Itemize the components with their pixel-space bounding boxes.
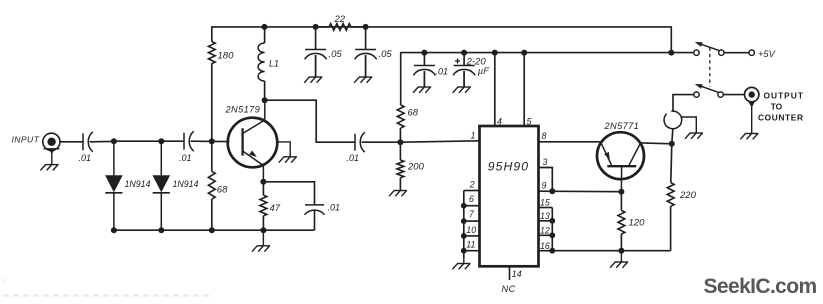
- capacitor C .05 (second bypass): [365, 27, 367, 50]
- node: emitter junction: [260, 179, 266, 185]
- wire: pin 5 supply drop: [521, 50, 527, 56]
- node: diode 1 top: [111, 138, 117, 144]
- wire: between diode nodes: [114, 140, 161, 142]
- svg-text:5: 5: [527, 116, 532, 126]
- node: base/120 junction: [618, 189, 624, 195]
- svg-text:TO: TO: [771, 101, 783, 111]
- wire: top-right corner drop: [670, 26, 672, 52]
- svg-text:.01: .01: [328, 203, 341, 213]
- ground (2-20 uF): [453, 71, 471, 93]
- svg-text:14: 14: [512, 269, 522, 279]
- resistor R 220: [671, 144, 672, 183]
- svg-text:+5V: +5V: [758, 49, 776, 59]
- switch S1a (power) contacts: [671, 52, 694, 54]
- svg-text:13: 13: [540, 211, 550, 221]
- connector J INPUT (BNC): [43, 133, 60, 150]
- node: L1 top junction: [261, 24, 267, 30]
- wire: to second coupling cap: [161, 140, 184, 142]
- svg-text:15: 15: [540, 197, 550, 207]
- switch S1a arm: [700, 44, 720, 51]
- svg-text:OUTPUT: OUTPUT: [764, 90, 804, 100]
- svg-text:16: 16: [540, 241, 550, 251]
- wire: base lead: [212, 140, 230, 142]
- inductor L1: [264, 27, 266, 43]
- svg-text:4: 4: [497, 116, 502, 126]
- capacitor C .05 (first bypass): [315, 27, 317, 50]
- wire: emitter rail to bypass cap: [263, 182, 314, 205]
- switch gang dashed link: [709, 48, 711, 87]
- wire: to pin 1: [400, 141, 479, 142]
- svg-text:.05: .05: [379, 49, 393, 60]
- svg-text:220: 220: [679, 190, 697, 201]
- wire: collector lead (2N5771): [629, 143, 641, 166]
- svg-text:.01: .01: [436, 67, 449, 77]
- svg-text:11: 11: [466, 240, 475, 250]
- svg-text:12: 12: [540, 225, 550, 235]
- ground (first .05): [304, 55, 322, 83]
- wire: +5V secondary rail: [401, 52, 672, 54]
- capacitor C .01 (input coupling 1): [82, 133, 84, 150]
- capacitor C .01 (emitter bypass): [305, 204, 324, 206]
- ground (output stage): [610, 251, 628, 268]
- pin 8 wire to 2N5771 emitter: [539, 141, 601, 143]
- svg-text:2: 2: [469, 179, 475, 189]
- resistor R 200 (input shunt): [397, 160, 404, 178]
- resistor R 22 (top, between bypass nodes): [313, 24, 319, 30]
- right pin strap bus: pins 15,13,12,16: [551, 208, 553, 251]
- wire: emitter lead with arrow (2N5771): [601, 142, 613, 166]
- switch S1b (output) contacts: [694, 92, 699, 97]
- capacitor C .01 (interstage coupling): [354, 134, 356, 151]
- capacitor C 2-20 uF electrolytic: [461, 50, 467, 56]
- wire: input to first cap: [60, 141, 83, 143]
- label + polarity: [455, 60, 460, 62]
- ground (200 resistor): [389, 190, 407, 196]
- wire: pin 4 supply drop: [492, 50, 498, 56]
- svg-text:.01: .01: [179, 153, 192, 163]
- IC U 95H90 prescaler: [480, 126, 539, 266]
- svg-text:1N914: 1N914: [173, 179, 199, 189]
- ground (2N5179 case): [279, 156, 297, 163]
- resistor R 68 (divider upper, at IC input): [400, 52, 402, 105]
- pin 9 wire to base node: [539, 190, 622, 193]
- node: diode 2 top: [158, 138, 164, 144]
- wire: jack shell tab: [682, 117, 697, 133]
- svg-text:.05: .05: [329, 49, 343, 60]
- svg-text:2N5179: 2N5179: [225, 105, 261, 115]
- svg-text:COUNTER: COUNTER: [758, 112, 804, 122]
- capacitor C .01 (input coupling 2): [183, 133, 185, 150]
- wire: base lead down: [620, 166, 622, 192]
- svg-text:1N914: 1N914: [125, 179, 151, 189]
- ground (input connector): [40, 153, 58, 170]
- capacitor C .01 (supply bypass): [421, 50, 427, 56]
- svg-text:8: 8: [542, 131, 547, 141]
- node: rail/top join: [668, 50, 674, 56]
- svg-text:68: 68: [408, 108, 419, 119]
- faint scan residue bottom-left: [3, 294, 213, 296]
- switch S1b arm: [700, 86, 719, 93]
- node: IC input junction: [397, 139, 403, 145]
- resistor R 68 (base bias): [208, 171, 215, 199]
- svg-text:95H90: 95H90: [488, 159, 529, 173]
- terminal +5V: [749, 50, 754, 55]
- node: collector/220 junction: [669, 141, 675, 147]
- svg-text:SeekIC.com: SeekIC.com: [704, 275, 817, 298]
- svg-text:.01: .01: [347, 153, 360, 163]
- svg-text:.01: .01: [79, 153, 92, 163]
- wire: ground return rail (pin16-120-220): [552, 250, 670, 252]
- wire: collector lead inside: [243, 120, 265, 134]
- svg-text:9: 9: [542, 181, 547, 191]
- svg-text:NC: NC: [502, 284, 516, 294]
- resistor R 180 (collector load): [208, 42, 215, 64]
- ground (second .05): [354, 55, 372, 83]
- resistor R 47 (emitter): [260, 195, 267, 216]
- node: base junction of 2N5179: [209, 138, 215, 144]
- svg-text:120: 120: [629, 217, 646, 228]
- svg-text:180: 180: [218, 51, 235, 62]
- svg-text:10: 10: [466, 225, 476, 235]
- wire: jack to collector node: [672, 129, 673, 144]
- wire: switch to +5V terminal: [724, 52, 749, 54]
- ground (.01 bypass): [413, 71, 431, 93]
- svg-text:µF: µF: [478, 65, 490, 76]
- wire: top supply rail: [212, 26, 672, 28]
- svg-text:6: 6: [469, 194, 474, 204]
- svg-text:68: 68: [217, 185, 228, 196]
- svg-text:22: 22: [334, 14, 346, 25]
- svg-text:2N5771: 2N5771: [604, 121, 640, 131]
- connector: inline phono jack: [664, 111, 682, 129]
- transistor Q 2N5771: [597, 132, 644, 179]
- svg-text:47: 47: [270, 203, 281, 214]
- svg-text:L1: L1: [269, 59, 279, 69]
- svg-text:7: 7: [469, 209, 475, 219]
- svg-text:1: 1: [471, 131, 476, 141]
- svg-text:200: 200: [407, 162, 425, 173]
- pin 14 stub and NC: [509, 266, 511, 280]
- ground (OUTPUT connector): [740, 134, 758, 140]
- connector J OUTPUT (phono): [745, 87, 759, 101]
- diode D 1N914 (right limiter): [160, 141, 162, 175]
- wire: collector node to coupling cap: [265, 100, 355, 142]
- wire: input-section ground rail: [114, 229, 315, 231]
- svg-text:3: 3: [543, 157, 548, 167]
- wire: switch to OUTPUT connector: [723, 94, 744, 96]
- wire: switch to output jack node: [673, 95, 694, 112]
- resistor R 120: [618, 211, 625, 235]
- diode D 1N914 (left limiter): [113, 141, 115, 175]
- ground (jack shell): [685, 133, 703, 139]
- node: 47 bottom: [260, 227, 266, 233]
- node: collector/L1 junction: [262, 97, 268, 103]
- pin 3 stub: [539, 168, 553, 192]
- wire: case lead of 2N5179: [277, 142, 290, 157]
- ground (emitter network): [252, 230, 270, 251]
- transistor Q 2N5179: [228, 118, 278, 168]
- ground (left strap bus): [452, 258, 470, 269]
- left pin strap bus: pins 2,6,7,10,11: [463, 191, 465, 259]
- wire: emitter lead with arrow: [243, 151, 264, 166]
- svg-text:INPUT: INPUT: [12, 135, 40, 145]
